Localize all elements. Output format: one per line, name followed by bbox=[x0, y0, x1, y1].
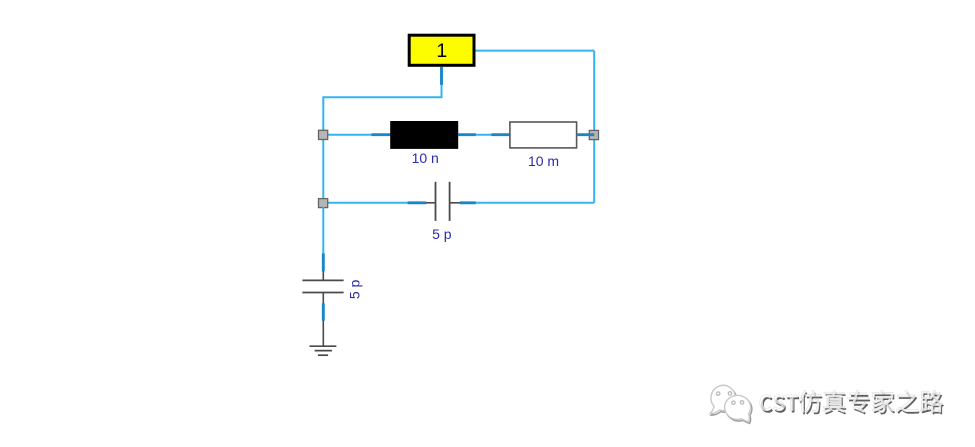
inductor L1 body (black block), value 10 n bbox=[390, 121, 458, 149]
wire capacitor C1 left pin bbox=[408, 201, 427, 204]
wire resistor R1 right pin bbox=[577, 133, 594, 136]
capacitor C1 right lead bbox=[450, 202, 460, 204]
wire node A down to node C bbox=[322, 135, 324, 203]
port 1 symbol (yellow box) bbox=[409, 35, 474, 65]
capacitor C2 top lead bbox=[322, 271, 324, 280]
wire inductor L1 left pin bbox=[372, 133, 391, 136]
ground symbol bbox=[310, 346, 337, 355]
ground lead bbox=[322, 320, 324, 346]
wire capacitor C1 right pin to right rail bbox=[476, 202, 595, 204]
wire between inductor and resistor bbox=[476, 134, 492, 136]
svg-text:5 p: 5 p bbox=[347, 279, 363, 299]
wire capacitor C1 right pin bbox=[460, 201, 476, 204]
wire capacitor C2 top pin bbox=[322, 254, 325, 272]
svg-text:10 n: 10 n bbox=[412, 150, 439, 166]
node A (gray junction square) bbox=[319, 130, 328, 139]
watermark logo (chat bubble large) bbox=[710, 385, 737, 415]
svg-text:1: 1 bbox=[436, 40, 447, 62]
capacitor C1 right plate bbox=[449, 182, 451, 221]
wire resistor R1 left pin bbox=[491, 133, 509, 136]
capacitor C2 top plate bbox=[302, 279, 343, 281]
wire node C down to capacitor C2 bbox=[322, 207, 324, 254]
watermark text CST仿真专家之路 white layer bbox=[760, 390, 943, 412]
svg-text:10 m: 10 m bbox=[528, 153, 559, 169]
capacitor C2 bottom plate bbox=[302, 292, 343, 294]
wire right vertical from corner down to lower rail bbox=[593, 51, 595, 203]
wire node A to inductor left pin bbox=[323, 134, 373, 136]
watermark logo (chat bubble small) bbox=[725, 395, 752, 423]
wire from port 1 stub down-left to node A bbox=[323, 85, 441, 135]
wire from port 1 right side to top-right corner bbox=[476, 50, 595, 52]
node B right (gray junction square) bbox=[589, 130, 598, 139]
watermark text CST仿真专家之路 shadow layer bbox=[761, 392, 944, 414]
capacitor C1 left lead bbox=[426, 202, 435, 204]
capacitor C2 bottom lead bbox=[322, 293, 324, 304]
resistor R1 body (white box), value 10 m bbox=[510, 122, 577, 148]
wire capacitor C2 bottom pin bbox=[322, 303, 325, 320]
wire node C to capacitor C1 left pin bbox=[323, 202, 408, 204]
svg-text:5 p: 5 p bbox=[432, 226, 452, 242]
node C lower-left (gray junction square) bbox=[319, 199, 328, 208]
wire inductor L1 right pin bbox=[458, 133, 476, 136]
capacitor C1 left plate bbox=[435, 182, 437, 221]
wire pin stub below port 1 bbox=[440, 67, 443, 85]
